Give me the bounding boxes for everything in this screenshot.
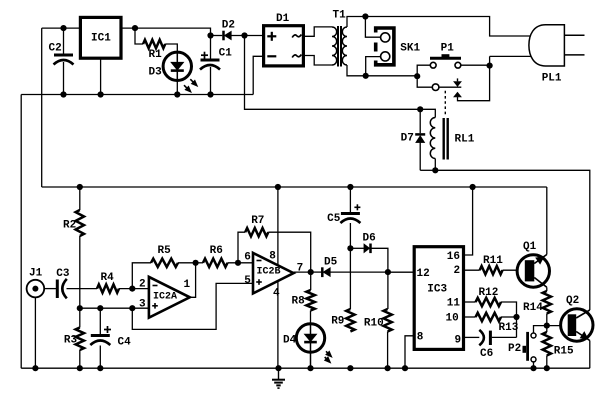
- junction IC3 pin16 supply: [470, 184, 476, 190]
- relay rail junction D7: [417, 106, 423, 112]
- svg-text:1: 1: [184, 279, 191, 291]
- svg-text:IC2B: IC2B: [257, 267, 281, 278]
- wire SK1 upper leg: [365, 17, 380, 38]
- wire D1 minus to ground: [253, 56, 263, 94]
- junction C4 ground: [97, 365, 103, 371]
- svg-text:R3: R3: [64, 334, 78, 346]
- bridge rectifier D1: [264, 13, 304, 66]
- junction C4 top: [97, 305, 103, 311]
- resistor R11: [480, 255, 504, 275]
- junction IC2B pin8 supply: [275, 184, 281, 190]
- svg-text:R4: R4: [101, 272, 115, 284]
- wire IC2B pin5 bias link: [132, 283, 253, 329]
- svg-text:C1: C1: [219, 47, 233, 59]
- svg-text:SK1: SK1: [400, 43, 420, 55]
- svg-text:J1: J1: [29, 267, 43, 279]
- junction IC3 pin8 ground: [402, 365, 408, 371]
- resistor R9: [331, 248, 354, 331]
- wire Q1 collector to V+ rail: [546, 187, 548, 255]
- svg-text:IC1: IC1: [91, 33, 111, 45]
- svg-text:R12: R12: [479, 287, 499, 299]
- resistor R3: [64, 308, 84, 368]
- junction P2 ground: [530, 365, 536, 371]
- wire SK1 lower leg: [366, 57, 381, 76]
- resistor R1: [135, 28, 177, 61]
- wire IC3 pin11: [464, 301, 476, 303]
- svg-text:C2: C2: [49, 43, 62, 55]
- wire IC2A output: [190, 263, 196, 298]
- wire J1 to C3: [44, 288, 56, 290]
- svg-text:Q2: Q2: [566, 295, 579, 307]
- wire D2 to D1+: [231, 35, 263, 37]
- input jack J1: [27, 267, 45, 297]
- resistor R12: [476, 287, 501, 306]
- wire unregulated supply to relay rail: [245, 36, 436, 118]
- wire T1 secondary bottom: [347, 65, 417, 76]
- svg-text:2: 2: [139, 279, 146, 291]
- junction C1 top: [207, 32, 213, 38]
- junction main ground: [275, 365, 281, 371]
- svg-text:Q1: Q1: [523, 241, 537, 253]
- resistor R14: [523, 287, 551, 325]
- node regulated V+ vertical wire: [41, 28, 43, 187]
- junction D3 ground: [174, 91, 180, 97]
- op-amp IC2B: [244, 250, 303, 299]
- junction bias to IC2B pin5: [129, 305, 135, 311]
- diode D5: [322, 256, 337, 277]
- junction Q2 base node: [544, 323, 550, 329]
- svg-text:R2: R2: [63, 220, 76, 232]
- wire IC1 input from C1: [121, 28, 211, 35]
- wire IC2A feedback: [132, 263, 151, 289]
- wire IC3 pin10: [464, 316, 476, 318]
- wire P2 bottom leg: [533, 362, 535, 368]
- junction R10 ground: [385, 365, 391, 371]
- svg-text:C5: C5: [327, 213, 341, 225]
- wire T1 secondary top to mains: [347, 17, 532, 37]
- junction J1 ground: [32, 365, 38, 371]
- svg-text:C6: C6: [480, 348, 493, 360]
- svg-text:9: 9: [455, 334, 462, 346]
- wire relay to Q2 collector: [435, 170, 590, 310]
- diode D6: [350, 233, 388, 272]
- svg-text:C3: C3: [56, 268, 70, 280]
- wire IC2B feedback riser: [238, 232, 245, 263]
- wire R12 right leg: [501, 302, 517, 337]
- svg-text:7: 7: [297, 263, 304, 275]
- wire IC3 pin8 to ground: [405, 336, 414, 368]
- capacitor C2: [49, 28, 74, 94]
- junction D4 ground: [307, 365, 313, 371]
- wire to relay contact common: [417, 76, 432, 87]
- IC3 box: [414, 247, 463, 350]
- junction detector node: [385, 269, 391, 275]
- ground rail top section: [21, 94, 253, 96]
- wire IC2B pin8 to V+ rail: [277, 187, 279, 265]
- wire left ground drop: [20, 95, 22, 369]
- wire IC3 pin9 to C6: [464, 336, 480, 338]
- capacitor C6: [479, 330, 516, 360]
- svg-text:R1: R1: [149, 49, 163, 61]
- wire C3 to R4: [67, 288, 98, 290]
- junction IC2A inverting input: [129, 286, 135, 292]
- wire IC3 pin16 to V+: [464, 187, 473, 255]
- svg-text:D3: D3: [149, 66, 163, 78]
- transformer T1 primary: [332, 27, 337, 65]
- wire P2 top leg: [534, 326, 547, 333]
- svg-text:D1: D1: [276, 13, 290, 25]
- wire C1 to D2: [211, 35, 223, 37]
- svg-text:RL1: RL1: [455, 133, 475, 145]
- relay contact common: [432, 84, 439, 91]
- svg-text:R9: R9: [331, 316, 344, 328]
- resistor R10: [364, 272, 392, 368]
- svg-text:6: 6: [244, 252, 251, 264]
- wire Q2 emitter to ground: [589, 341, 591, 369]
- op-amp regulator IC1: [80, 17, 121, 58]
- svg-text:2: 2: [454, 265, 461, 277]
- junction C1 ground: [207, 91, 213, 97]
- svg-text:12: 12: [417, 268, 430, 280]
- svg-text:R5: R5: [158, 245, 172, 257]
- junction IC1 input / R1: [132, 25, 138, 31]
- pushbutton P2: [508, 332, 536, 362]
- junction C5/D6/R9: [347, 245, 353, 251]
- wire IC1 ground pin: [100, 58, 102, 94]
- junction C2 top: [60, 25, 66, 31]
- svg-text:IC2A: IC2A: [153, 292, 177, 303]
- svg-text:11: 11: [447, 298, 461, 310]
- svg-text:D2: D2: [222, 20, 235, 32]
- junction R3 ground: [77, 365, 83, 371]
- capacitor C5: [327, 187, 360, 248]
- junction P1 right / PL1 lower: [487, 63, 493, 69]
- junction IC2B output node: [308, 269, 314, 275]
- wire D3 to ground rail: [176, 80, 178, 94]
- junction R15 ground: [544, 365, 550, 371]
- bottom ground rail: [21, 367, 590, 369]
- relay contact NO arrow: [454, 56, 490, 100]
- svg-text:R11: R11: [483, 255, 503, 267]
- wire P1 left leg: [417, 65, 430, 76]
- wire P1 right leg: [461, 64, 490, 66]
- wire IC2B output: [294, 271, 311, 273]
- wire IC1 output to C2/left rail: [42, 27, 81, 29]
- junction relay coil bottom: [432, 167, 438, 173]
- svg-text:P1: P1: [441, 43, 455, 55]
- junction IC2B inverting input: [235, 260, 241, 266]
- svg-text:D4: D4: [283, 335, 297, 347]
- capacitor C3: [56, 268, 70, 298]
- relay contact NC arrow: [454, 78, 462, 86]
- resistor R2: [63, 187, 84, 308]
- svg-text:P2: P2: [508, 343, 521, 355]
- mechanical link dashed line: [444, 91, 446, 117]
- svg-text:R7: R7: [251, 215, 264, 227]
- svg-text:3: 3: [139, 299, 146, 311]
- transistor Q2: [561, 295, 593, 341]
- resistor R7: [245, 215, 268, 236]
- junction R9 ground: [347, 365, 353, 371]
- LED D4 light arrows: [324, 351, 332, 363]
- junction IC2A output node: [193, 260, 199, 266]
- capacitor C1: [200, 36, 232, 95]
- transformer T1 core: [338, 26, 341, 67]
- LED D3: [149, 52, 192, 80]
- LED D4: [283, 311, 325, 369]
- wire base node to Q2: [547, 325, 568, 327]
- junction SK1 upper: [362, 13, 368, 19]
- junction R2/R3 bias: [77, 305, 83, 311]
- resistor R4: [97, 272, 119, 293]
- svg-text:8: 8: [417, 332, 424, 344]
- transistor Q1: [517, 241, 549, 287]
- wire R13 to node: [501, 316, 517, 318]
- wire D1 AC pin upper: [303, 27, 332, 36]
- socket SK1: [376, 28, 421, 65]
- relay coil RL1: [430, 118, 474, 171]
- wire IC2B pin4 to ground: [277, 281, 279, 368]
- diode D7: [401, 109, 436, 170]
- junction R2 top: [77, 184, 83, 190]
- diode D2: [222, 20, 235, 41]
- svg-text:4: 4: [273, 287, 280, 299]
- svg-text:R13: R13: [499, 322, 519, 334]
- svg-text:PL1: PL1: [542, 73, 562, 85]
- svg-text:R14: R14: [523, 302, 543, 314]
- wire IC3 pin2 to R11: [464, 269, 480, 271]
- junction P1/SK1/relay contact: [414, 73, 420, 79]
- op-amp IC2A: [139, 277, 191, 318]
- wire D1 AC pin lower: [303, 56, 332, 66]
- junction unregulated supply node: [241, 32, 247, 38]
- svg-text:R15: R15: [554, 346, 574, 358]
- svg-text:5: 5: [244, 275, 251, 287]
- capacitor C4: [90, 308, 131, 368]
- junction C2 bottom: [60, 91, 66, 97]
- junction R12/R13/C6: [513, 314, 519, 320]
- svg-text:R10: R10: [364, 317, 384, 329]
- ground symbol: [272, 368, 285, 388]
- wire IC3 pin12: [388, 271, 414, 273]
- svg-text:R8: R8: [292, 296, 306, 308]
- LED D3 light arrows: [184, 79, 198, 92]
- resistor R15: [543, 326, 574, 369]
- svg-text:C4: C4: [118, 337, 132, 349]
- svg-text:8: 8: [269, 250, 276, 262]
- resistor R13: [476, 313, 519, 334]
- junction SK1 lower: [363, 73, 369, 79]
- svg-text:D5: D5: [324, 256, 338, 268]
- wire R5 to output node: [178, 262, 196, 264]
- svg-text:D7: D7: [401, 132, 414, 144]
- junction C5 top: [347, 184, 353, 190]
- bias divider row: [80, 307, 149, 309]
- wire PL1 lower: [490, 55, 532, 57]
- svg-text:IC3: IC3: [427, 284, 447, 296]
- svg-text:10: 10: [446, 313, 459, 325]
- wire D5 to IC3 pin12: [330, 271, 414, 273]
- mains plug PL1: [529, 25, 585, 85]
- transformer T1 secondary: [333, 10, 348, 66]
- svg-text:T1: T1: [333, 10, 347, 22]
- relay contact line: [439, 86, 461, 88]
- resistor R6: [196, 245, 253, 267]
- regulated V+ rail: [42, 186, 547, 188]
- wire R11 to Q1 base: [503, 269, 525, 271]
- resistor R5: [151, 245, 178, 267]
- pushbutton P1: [430, 43, 461, 69]
- wire R4 to IC2A pin2: [119, 288, 149, 290]
- svg-text:16: 16: [447, 251, 460, 263]
- resistor R8: [292, 272, 315, 310]
- wire R7 to output: [268, 232, 310, 272]
- wire output to D5: [311, 271, 323, 273]
- wire J1 ground leg: [34, 297, 36, 368]
- svg-text:R6: R6: [210, 245, 223, 257]
- svg-text:D6: D6: [363, 233, 376, 245]
- junction IC1 ground: [98, 91, 104, 97]
